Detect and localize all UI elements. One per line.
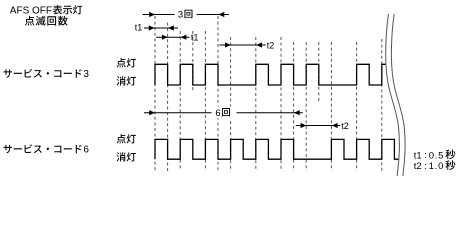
text mask 6回 bbox=[212, 107, 237, 119]
arrowhead t1 row2 left bbox=[162, 35, 168, 40]
label サービス・コード6 kana bbox=[3, 144, 81, 153]
svg-text:t1: t1 bbox=[414, 150, 422, 161]
wave1 label 消灯 bbox=[117, 76, 136, 85]
svg-text:t2: t2 bbox=[267, 40, 275, 50]
dashed gridline x=356.6 bbox=[356, 42, 358, 171]
label サービス・コード3 kana bbox=[3, 69, 81, 78]
dashed gridline x=192.8 bbox=[192, 31, 194, 90]
svg-text:3: 3 bbox=[83, 69, 89, 80]
wave1 label 点灯 bbox=[117, 58, 136, 67]
dimension line t2 row2 bbox=[296, 125, 341, 127]
arrowhead t1 row1 right bbox=[168, 25, 174, 30]
break mark curve 2 bbox=[391, 14, 405, 176]
dimension line t2 row1 bbox=[219, 44, 265, 46]
legend 秒 1 bbox=[445, 149, 455, 159]
svg-text:t2: t2 bbox=[341, 121, 349, 131]
arrowhead t1 row2 right bbox=[181, 35, 187, 40]
arrowhead t1 row1 left bbox=[149, 25, 155, 30]
svg-text:3: 3 bbox=[178, 9, 183, 20]
legend 秒 2 bbox=[445, 160, 455, 170]
text mask 3回 bbox=[175, 9, 197, 21]
dashed gridline x=331.4 bbox=[330, 42, 332, 171]
svg-text:6: 6 bbox=[83, 145, 89, 156]
dashed gridline x=255.8 bbox=[255, 37, 257, 171]
dashed gridline x=318.8 bbox=[318, 42, 320, 103]
dashed gridline x=293.6 bbox=[293, 42, 295, 171]
arrowhead t2 row1 left bbox=[225, 42, 231, 47]
wave2 label 消灯 bbox=[117, 152, 136, 161]
svg-text:AFS OFF: AFS OFF bbox=[10, 6, 52, 17]
header line2 点滅回数 bbox=[25, 16, 68, 26]
dashed gridline x=281 bbox=[280, 37, 282, 171]
waveform service code 3 bbox=[155, 64, 386, 85]
dashed gridline x=155 bbox=[154, 16, 156, 171]
text 回 of 6回 bbox=[222, 108, 230, 116]
dimension line t1 row1 bbox=[144, 27, 178, 29]
svg-text:1.0: 1.0 bbox=[429, 161, 444, 172]
dimension line t1 row2 bbox=[156, 36, 189, 38]
dashed gridline x=306.2 bbox=[305, 42, 307, 171]
dashed gridline x=167.6 bbox=[167, 23, 169, 172]
dashed gridline x=218 bbox=[217, 16, 219, 171]
wave2 label 点灯 bbox=[117, 134, 136, 143]
svg-text:t2: t2 bbox=[414, 161, 422, 172]
dashed gridline x=180.2 bbox=[179, 31, 181, 171]
svg-text:t1: t1 bbox=[135, 22, 143, 32]
arrowhead t2 row1 right bbox=[256, 42, 262, 47]
dashed gridline x=381.8 bbox=[381, 39, 383, 173]
break mark curve 1 bbox=[386, 14, 400, 176]
dimension line 6回 bbox=[144, 112, 303, 114]
arrowhead 6回 right bbox=[294, 110, 300, 115]
svg-text:6: 6 bbox=[215, 107, 220, 118]
arrowhead 6回 left bbox=[149, 110, 155, 115]
dashed gridline x=230.6 bbox=[230, 37, 232, 171]
header line1 kanji 表示灯 bbox=[53, 5, 82, 14]
svg-text:0.5: 0.5 bbox=[429, 150, 444, 161]
dashed gridline x=205.4 bbox=[204, 31, 206, 171]
arrowhead t2 row2 right bbox=[332, 123, 338, 128]
dimension line 3回 bbox=[143, 14, 230, 16]
arrowhead 3回 right bbox=[219, 12, 225, 17]
text 回 of 3回 bbox=[184, 10, 192, 18]
svg-text:t1: t1 bbox=[191, 33, 199, 43]
arrowhead 3回 left bbox=[149, 12, 155, 17]
svg-text::: : bbox=[424, 161, 427, 172]
svg-text::: : bbox=[424, 150, 427, 161]
arrowhead t2 row2 left bbox=[301, 123, 307, 128]
waveform service code 6 bbox=[155, 139, 399, 159]
